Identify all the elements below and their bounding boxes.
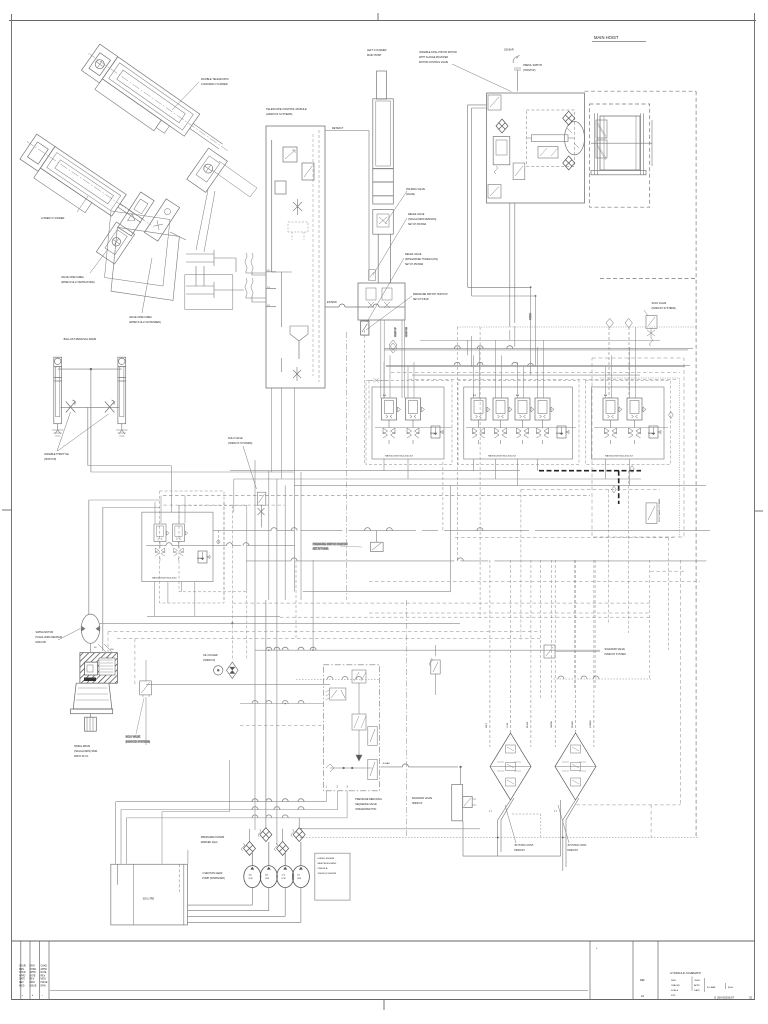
svg-text:NTS: NTS xyxy=(671,995,676,997)
svg-text:RETRACT: RETRACT xyxy=(332,127,344,130)
svg-text:B A: B A xyxy=(473,394,477,397)
svg-text:MOTOR CONTROL VALVE: MOTOR CONTROL VALVE xyxy=(419,61,449,64)
svg-text:APPD: APPD xyxy=(19,974,26,977)
svg-text:HAGGLUNDS M4-12000-XX: HAGGLUNDS M4-12000-XX xyxy=(385,455,414,458)
svg-text:VARIABLE AXIAL PISTON MOTOR: VARIABLE AXIAL PISTON MOTOR xyxy=(419,51,457,54)
svg-text:(H290CXX): (H290CXX) xyxy=(203,659,215,662)
svg-text:150 BAR: 150 BAR xyxy=(504,49,514,52)
svg-text:OM442LA: OM442LA xyxy=(318,867,328,870)
svg-text:RELIEF VALVE: RELIEF VALVE xyxy=(405,253,422,256)
svg-text:H290CXX: H290CXX xyxy=(567,849,578,852)
svg-text:DRN: DRN xyxy=(30,966,35,968)
svg-text:PRESSURE SWITCH HOISTDN: PRESSURE SWITCH HOISTDN xyxy=(313,543,348,546)
svg-text:SET AT 330 BAR: SET AT 330 BAR xyxy=(408,223,426,226)
svg-text:PUMP (WHATEVER): PUMP (WHATEVER) xyxy=(202,877,225,880)
svg-text:APPD: APPD xyxy=(41,968,48,971)
svg-text:250BAR: 250BAR xyxy=(197,557,205,560)
svg-text:H290CXX: H290CXX xyxy=(514,849,525,852)
svg-text:APPD: APPD xyxy=(30,971,37,974)
svg-text:+: + xyxy=(596,947,598,950)
svg-text:(WHEN FULLY EXTENDED): (WHEN FULLY EXTENDED) xyxy=(129,321,161,324)
svg-text:CHKD: CHKD xyxy=(694,980,701,982)
svg-text:B A: B A xyxy=(604,394,608,397)
svg-text:CHKD: CHKD xyxy=(30,969,37,971)
svg-text:OIL COOLER: OIL COOLER xyxy=(203,654,218,657)
svg-text:INTEGRATED HYD.: INTEGRATED HYD. xyxy=(355,808,377,811)
svg-text:(H290CXX SYSTEMS): (H290CXX SYSTEMS) xyxy=(126,741,151,744)
svg-text:MAIN HOIST: MAIN HOIST xyxy=(594,35,619,40)
svg-text:BALLAST REMOVAL RAMS: BALLAST REMOVAL RAMS xyxy=(64,337,97,341)
svg-text:(H290CXX SYSTEMS): (H290CXX SYSTEMS) xyxy=(228,442,253,445)
svg-text:135: 135 xyxy=(265,875,268,877)
svg-text:DATE: DATE xyxy=(19,978,25,981)
svg-text:175: 175 xyxy=(297,875,300,877)
svg-text:SWING: SWING xyxy=(551,721,553,728)
svg-text:HAGGLUNDS M4-12000: HAGGLUNDS M4-12000 xyxy=(152,577,177,580)
svg-text:EXTEND: EXTEND xyxy=(327,301,337,304)
svg-text:HOLDING VALVE: HOLDING VALVE xyxy=(406,188,425,191)
svg-text:SWING DRIVE: SWING DRIVE xyxy=(74,745,90,748)
svg-text:330 LITRE: 330 LITRE xyxy=(143,898,155,901)
svg-text:a: a xyxy=(22,995,24,997)
svg-text:b: b xyxy=(32,995,34,997)
svg-text:(VALVE): (VALVE) xyxy=(406,193,415,196)
svg-text:LPM: LPM xyxy=(297,878,301,880)
svg-text:ISSUE: ISSUE xyxy=(19,966,26,968)
svg-text:JOYSTICK CONT.: JOYSTICK CONT. xyxy=(567,844,587,847)
svg-text:REF: REF xyxy=(640,979,645,982)
svg-text:CHKD: CHKD xyxy=(41,966,48,968)
svg-text:PRESSURE REDUCING: PRESSURE REDUCING xyxy=(355,798,382,801)
svg-text:DRN: DRN xyxy=(671,980,676,982)
svg-text:SCALE: SCALE xyxy=(671,989,679,992)
svg-text:PRESS. SWITCH: PRESS. SWITCH xyxy=(523,64,542,67)
svg-text:HYDRAULIC SCHEMATIC: HYDRAULIC SCHEMATIC xyxy=(670,971,701,975)
svg-text:(HOISTUP): (HOISTUP) xyxy=(523,69,535,72)
svg-text:H290CXX SYSTEM: H290CXX SYSTEM xyxy=(605,653,626,656)
svg-text:G 250-55292/07: G 250-55292/07 xyxy=(714,996,735,1000)
svg-text:(HAGGLUNDS) SD64: (HAGGLUNDS) SD64 xyxy=(74,750,98,753)
svg-text:SOLENOID VALVE: SOLENOID VALVE xyxy=(412,797,433,800)
svg-text:SOLENOID VALVE: SOLENOID VALVE xyxy=(605,648,626,651)
svg-text:LOWER CYLINDER: LOWER CYLINDER xyxy=(41,216,64,220)
svg-text:4 SECTION GEAR: 4 SECTION GEAR xyxy=(202,872,222,875)
svg-text:APPD: APPD xyxy=(694,984,700,987)
svg-text:CHKD: CHKD xyxy=(19,972,26,974)
svg-text:SET AT 5 BAR: SET AT 5 BAR xyxy=(313,548,329,551)
svg-text:90: 90 xyxy=(94,647,97,649)
svg-text:ISSUE: ISSUE xyxy=(41,982,48,984)
svg-text:H290CXX: H290CXX xyxy=(412,802,423,805)
svg-text:REV: REV xyxy=(19,982,24,984)
svg-text:A4: A4 xyxy=(641,995,645,998)
svg-text:DIESEL ENGINE: DIESEL ENGINE xyxy=(318,858,335,860)
svg-text:MERCEDES BENZ: MERCEDES BENZ xyxy=(318,863,338,865)
svg-text:RELIEF VALVE: RELIEF VALVE xyxy=(408,213,425,216)
svg-text:B 4 BAR: B 4 BAR xyxy=(707,986,716,989)
svg-text:VARIABLE THROTTLE: VARIABLE THROTTLE xyxy=(44,453,69,456)
svg-text:REV: REV xyxy=(41,975,46,977)
svg-text:WITH FLANGE MOUNTED: WITH FLANGE MOUNTED xyxy=(419,56,448,59)
svg-text:SWING MOTOR: SWING MOTOR xyxy=(36,631,54,634)
svg-text:SOLO VALVE: SOLO VALVE xyxy=(126,736,141,739)
svg-text:3: 3 xyxy=(347,786,349,789)
svg-text:JOYSTICK CONT.: JOYSTICK CONT. xyxy=(514,844,534,847)
svg-text:SET AT 5 BAR: SET AT 5 BAR xyxy=(413,298,429,301)
svg-text:(HOISTUP): (HOISTUP) xyxy=(44,458,56,461)
svg-text:MAIN HOIST: MAIN HOIST xyxy=(367,54,382,57)
svg-text:LPM: LPM xyxy=(282,878,286,880)
svg-text:TELESCOPE CONTROL MODULE: TELESCOPE CONTROL MODULE xyxy=(266,107,307,111)
svg-text:ISSUE: ISSUE xyxy=(30,985,37,987)
svg-text:PRESSURE SWITCH HOISTUP: PRESSURE SWITCH HOISTUP xyxy=(413,293,448,296)
svg-text:c: c xyxy=(42,995,43,997)
svg-text:CCW: CCW xyxy=(507,723,509,728)
svg-text:DOUBLE TELESCOPIC: DOUBLE TELESCOPIC xyxy=(201,77,229,81)
svg-text:DOWN: DOWN xyxy=(572,721,574,728)
svg-text:DATE: DATE xyxy=(30,974,36,977)
svg-text:|M+H: |M+H xyxy=(728,987,734,989)
svg-text:HOIST DN: HOIST DN xyxy=(406,327,408,337)
svg-text:320HP@2100RPM: 320HP@2100RPM xyxy=(318,873,337,875)
svg-text:MOD: MOD xyxy=(19,985,25,987)
svg-text:17.5: 17.5 xyxy=(282,875,286,877)
svg-text:LPM: LPM xyxy=(265,878,269,880)
svg-text:1: 1 xyxy=(326,786,328,789)
svg-text:(WHEN FULLY RETRACTED): (WHEN FULLY RETRACTED) xyxy=(61,281,95,284)
svg-text:SWING: SWING xyxy=(530,313,532,320)
svg-text:120: 120 xyxy=(110,649,114,651)
svg-text:REV: REV xyxy=(30,979,35,981)
svg-text:LOWER: LOWER xyxy=(590,720,592,728)
svg-text:HOIST UP: HOIST UP xyxy=(395,327,397,337)
svg-text:250BAR: 250BAR xyxy=(430,432,438,435)
svg-text:250BAR: 250BAR xyxy=(648,432,656,435)
svg-text:LPM: LPM xyxy=(249,878,253,880)
svg-text:TRACED: TRACED xyxy=(671,984,680,987)
svg-text:410: 410 xyxy=(249,875,252,877)
svg-text:32: 32 xyxy=(749,996,753,1000)
svg-text:LONG/MID CYLINDER: LONG/MID CYLINDER xyxy=(201,82,228,86)
svg-text:SOLO VALVE: SOLO VALVE xyxy=(652,302,667,305)
svg-text:SOLO VALVE: SOLO VALVE xyxy=(228,437,243,440)
svg-text:SEQUENCE VALVE: SEQUENCE VALVE xyxy=(355,803,377,806)
svg-text:2: 2 xyxy=(337,786,339,789)
svg-text:M4D-C38: M4D-C38 xyxy=(36,641,47,644)
svg-text:DATE: DATE xyxy=(694,989,700,992)
svg-text:HAGGLUNDS DENISON: HAGGLUNDS DENISON xyxy=(36,636,63,639)
svg-text:DRN: DRN xyxy=(19,969,24,971)
svg-text:(H290CXX SYSTEMS): (H290CXX SYSTEMS) xyxy=(652,307,677,310)
svg-text:B A: B A xyxy=(383,394,387,397)
svg-text:LEFT CYLINDER: LEFT CYLINDER xyxy=(367,49,387,52)
svg-text:MOD: MOD xyxy=(30,982,36,984)
svg-text:HAGGLUNDS M4-12000-XX: HAGGLUNDS M4-12000-XX xyxy=(605,455,634,458)
svg-text:(INTEGRATED HYDRAULICS): (INTEGRATED HYDRAULICS) xyxy=(405,258,438,261)
svg-text:PRESSURE FILTERS: PRESSURE FILTERS xyxy=(201,836,225,839)
svg-text:MARKED 10μm: MARKED 10μm xyxy=(201,841,218,844)
svg-text:RATIO 45.4:1: RATIO 45.4:1 xyxy=(74,755,89,758)
svg-text:P T: P T xyxy=(489,811,493,813)
svg-text:LEFT: LEFT xyxy=(486,722,488,728)
svg-text:DATE: DATE xyxy=(41,971,47,974)
svg-text:B A: B A xyxy=(516,394,520,397)
svg-text:SOLO VALVE SYSTEMS: SOLO VALVE SYSTEMS xyxy=(658,498,661,522)
svg-text:P T: P T xyxy=(554,811,558,813)
svg-text:250BAR: 250BAR xyxy=(556,432,564,435)
svg-text:SET AT 250 BAR: SET AT 250 BAR xyxy=(405,263,423,266)
svg-text:MOD: MOD xyxy=(41,979,47,981)
svg-text:(H290CXX SYSTEMS): (H290CXX SYSTEMS) xyxy=(266,112,293,116)
svg-text:35 BAR: 35 BAR xyxy=(383,762,391,765)
svg-text:RIGHT: RIGHT xyxy=(527,721,529,728)
svg-text:VALVE OPEN AREA: VALVE OPEN AREA xyxy=(129,316,152,319)
svg-text:VALVE OPEN AREA: VALVE OPEN AREA xyxy=(61,276,84,279)
svg-text:(HAGGLUNDS DENISON): (HAGGLUNDS DENISON) xyxy=(408,218,436,221)
svg-text:HAGGLUNDS M4-12000-XX: HAGGLUNDS M4-12000-XX xyxy=(488,455,517,458)
svg-text:DRN: DRN xyxy=(41,985,46,987)
